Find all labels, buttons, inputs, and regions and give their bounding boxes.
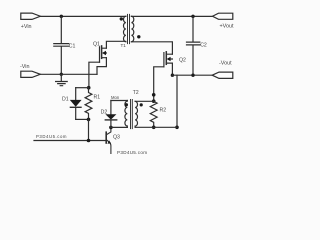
wire Q3 collector to T2 — [111, 126, 127, 128]
wire -Vout to bottom — [176, 75, 178, 127]
resistor R1 — [85, 88, 92, 120]
wire Q1 drain to T1 — [106, 41, 125, 48]
wire Q1 source step — [97, 58, 106, 75]
transistor Q2 — [163, 53, 165, 67]
svg-text:D2: D2 — [101, 109, 108, 115]
wire -Vin rail — [40, 73, 97, 75]
svg-text:P3D4U5.com: P3D4U5.com — [36, 134, 67, 139]
node C1 bottom junction — [60, 73, 63, 76]
svg-text:+Vout: +Vout — [220, 24, 234, 30]
transistor Q3 — [105, 132, 107, 143]
transformer T2 — [125, 101, 127, 128]
svg-text:D1: D1 — [62, 96, 69, 102]
node Q3 collector junction — [109, 126, 113, 130]
node gate drive dot — [152, 93, 156, 97]
wire T1 secondary bottom to Q2 drain — [131, 42, 172, 54]
node C1 top junction — [60, 15, 63, 18]
capacitor C1 — [54, 16, 69, 74]
node C2 bottom junction — [191, 74, 194, 77]
svg-text:T2: T2 — [133, 90, 139, 96]
wire T2 right top — [135, 100, 154, 102]
svg-text:Q2: Q2 — [179, 58, 186, 64]
node R2 bottom junction — [152, 126, 156, 130]
wire D1 R1 bottom — [76, 118, 89, 120]
node C2 top junction — [191, 15, 194, 18]
node bottom right junction — [175, 126, 179, 130]
node base junction — [87, 139, 91, 143]
node gate bias junction — [87, 86, 91, 90]
diode D1 — [75, 88, 77, 120]
wire Q1 gate — [89, 62, 100, 87]
wire Q2 gate — [154, 67, 164, 101]
svg-text:Q3: Q3 — [113, 135, 120, 141]
svg-text:-Vout: -Vout — [219, 60, 232, 66]
node Q2 source junction — [171, 74, 174, 77]
wire Q3 base rail — [34, 140, 106, 142]
svg-text:-Vin: -Vin — [20, 64, 30, 70]
node R2 top junction — [152, 99, 156, 103]
svg-text:+Vin: +Vin — [21, 24, 32, 30]
svg-text:R1: R1 — [94, 95, 101, 101]
svg-text:T1: T1 — [121, 43, 127, 48]
svg-text:R2: R2 — [160, 107, 167, 113]
node R1 bottom junction — [87, 118, 91, 122]
diode D2 — [110, 101, 112, 128]
connector -Vout — [212, 72, 233, 78]
wire -Vout rail — [172, 74, 212, 76]
resistor R2 — [150, 101, 157, 127]
svg-text:C2: C2 — [200, 43, 207, 49]
connector +Vin — [21, 13, 41, 19]
wire D2 top to T2 — [111, 100, 127, 102]
wire R1 to Q3 base rail — [88, 119, 90, 140]
svg-text:C1: C1 — [69, 43, 76, 49]
capacitor C2 — [187, 16, 200, 75]
wire T1 secondary top to +Vout — [131, 15, 212, 17]
transistor Q1 — [99, 47, 101, 62]
svg-text:Mon: Mon — [111, 95, 120, 100]
wire D1 R1 top — [76, 87, 89, 89]
wire +Vin rail — [40, 15, 126, 17]
connector +Vout — [213, 13, 233, 19]
wire Q2 source to -Vout rail — [171, 63, 173, 75]
ground — [56, 74, 68, 85]
wire T2 right bottom — [135, 126, 177, 128]
svg-text:P3D4U5.com: P3D4U5.com — [117, 150, 147, 155]
svg-text:Q1: Q1 — [93, 42, 100, 48]
transformer T1 — [123, 16, 125, 42]
connector -Vin — [21, 71, 41, 77]
